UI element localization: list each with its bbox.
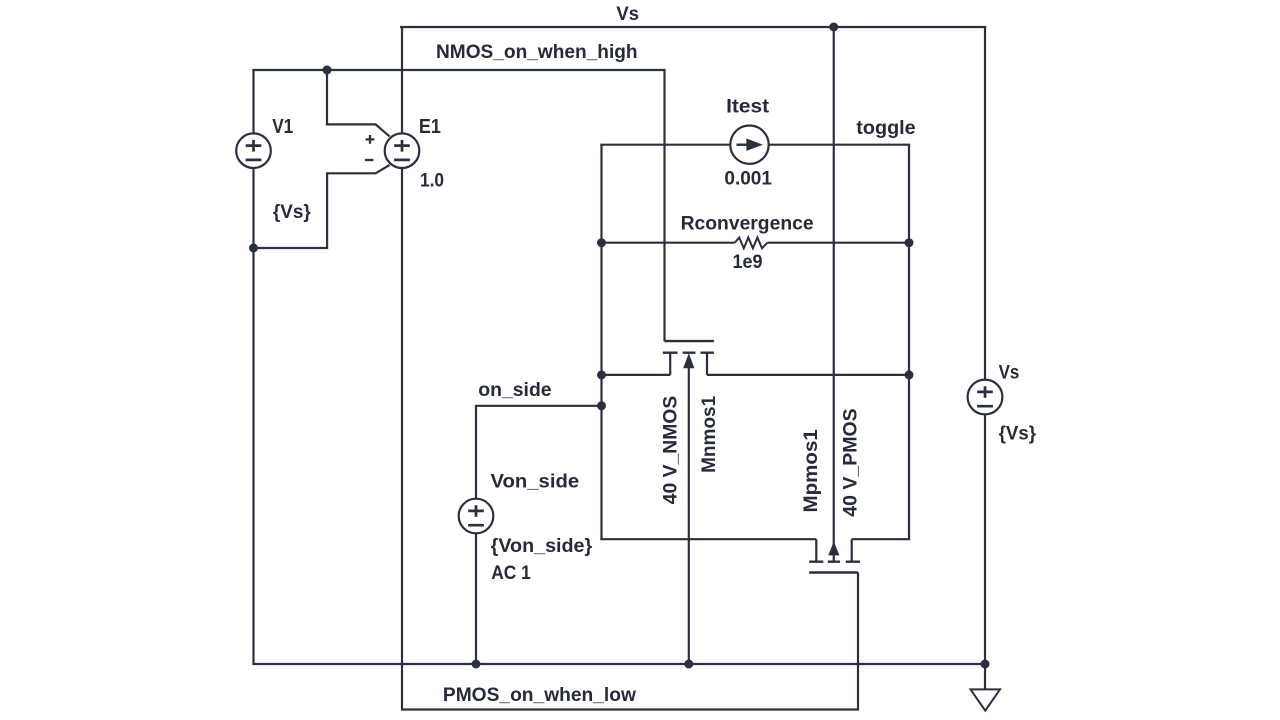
svg-text:AC 1: AC 1	[491, 563, 531, 584]
svg-text:NMOS_on_when_high: NMOS_on_when_high	[436, 42, 638, 63]
svg-text:Von_side: Von_side	[491, 472, 580, 493]
svg-text:1e9: 1e9	[733, 252, 763, 273]
svg-text:E1: E1	[419, 115, 441, 138]
svg-text:Mnmos1: Mnmos1	[699, 395, 720, 473]
svg-text:PMOS_on_when_low: PMOS_on_when_low	[443, 685, 636, 706]
svg-text:Vs: Vs	[616, 4, 639, 25]
svg-text:0.001: 0.001	[724, 169, 772, 190]
svg-text:40 V_PMOS: 40 V_PMOS	[840, 408, 861, 516]
svg-text:1.0: 1.0	[420, 170, 444, 191]
svg-text:{Von_side}: {Von_side}	[491, 536, 593, 557]
svg-text:Mpmos1: Mpmos1	[801, 429, 822, 513]
svg-text:toggle: toggle	[856, 118, 915, 139]
svg-text:40 V_NMOS: 40 V_NMOS	[660, 396, 681, 504]
svg-text:{Vs}: {Vs}	[999, 424, 1037, 445]
svg-text:V1: V1	[272, 115, 293, 138]
svg-text:on_side: on_side	[478, 380, 551, 401]
svg-text:Rconvergence: Rconvergence	[681, 213, 814, 234]
svg-text:Itest: Itest	[726, 97, 770, 118]
svg-text:Vs: Vs	[999, 363, 1020, 384]
svg-text:{Vs}: {Vs}	[273, 202, 311, 223]
